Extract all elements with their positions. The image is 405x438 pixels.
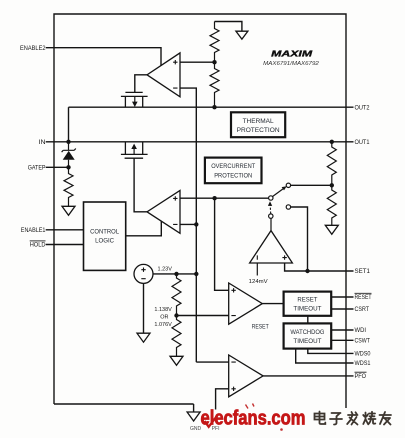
wire control logic to U2 enable bbox=[126, 221, 162, 236]
svg-text:CSWT: CSWT bbox=[355, 337, 371, 344]
resistor R2 bbox=[210, 62, 219, 107]
wire U4 output to switch actuator bbox=[270, 218, 272, 230]
node GATEP junction bbox=[66, 165, 70, 169]
wire WDS0 pin bbox=[308, 349, 354, 354]
svg-text:WDS1: WDS1 bbox=[355, 360, 371, 367]
svg-text:WDS0: WDS0 bbox=[355, 351, 371, 358]
node divider top bbox=[174, 272, 178, 276]
op-amp U2 (OUT1 error amp) bbox=[147, 190, 180, 233]
wire U4 + to SET1 node bbox=[285, 263, 308, 271]
overline RESET bbox=[355, 292, 372, 294]
overline HOLD bbox=[30, 240, 46, 242]
reset timeout box bbox=[284, 292, 332, 316]
svg-text:RESET: RESET bbox=[252, 324, 269, 331]
wire R1 top to ground bbox=[215, 22, 242, 32]
wire U4 - to 124mV reference bbox=[256, 263, 258, 276]
wire IN / OUT1 rail bbox=[46, 141, 354, 143]
resistor R3 bbox=[64, 167, 73, 206]
svg-text:PROTECTION: PROTECTION bbox=[214, 172, 252, 179]
svg-text:124mV: 124mV bbox=[249, 279, 268, 285]
svg-text:HOLD: HOLD bbox=[30, 242, 46, 249]
wire U2 - to ref rail bbox=[180, 223, 196, 225]
wire CSWT pin bbox=[331, 339, 353, 341]
svg-text:THERMAL: THERMAL bbox=[243, 118, 275, 125]
overcurrent comparator U4 bbox=[250, 231, 293, 263]
svg-text:MAX6791/MAX6792: MAX6791/MAX6792 bbox=[263, 61, 319, 67]
svg-text:TIMEOUT: TIMEOUT bbox=[293, 338, 321, 345]
ground (R7) bbox=[170, 356, 183, 365]
wire U1 - input / 1.23V reference rail bbox=[180, 88, 196, 362]
ground (1.23V source) bbox=[137, 333, 150, 342]
svg-text:ENABLE2: ENABLE2 bbox=[20, 45, 46, 52]
svg-text:LOGIC: LOGIC bbox=[95, 238, 115, 245]
op-amp U1 (OUT2 error amp) bbox=[147, 53, 180, 97]
watchdog timeout box bbox=[284, 323, 332, 348]
wire feedback to reset comparator + bbox=[215, 198, 229, 290]
svg-text:ENABLE1: ENABLE1 bbox=[21, 227, 46, 234]
wire WDS1 pin bbox=[296, 349, 354, 363]
node threshold tap bbox=[174, 313, 178, 317]
svg-text:MAXIM: MAXIM bbox=[271, 48, 313, 58]
wire IN up to Q1 source bbox=[68, 107, 70, 142]
ground (GND pin) bbox=[187, 412, 200, 421]
resistor R4 bbox=[327, 142, 336, 186]
wire RESET pin bbox=[331, 296, 353, 298]
wire PFI pin to U5 + bbox=[216, 389, 229, 410]
wire U2 output to Q2 gate bbox=[134, 158, 147, 212]
wire U5 output to PFO pin bbox=[263, 375, 353, 377]
resistor R6 bbox=[172, 274, 181, 316]
svg-text:SET1: SET1 bbox=[355, 268, 371, 275]
overline PFO bbox=[355, 371, 367, 373]
svg-text:WATCHDOG: WATCHDOG bbox=[290, 329, 324, 336]
thermal protection box bbox=[231, 112, 285, 137]
svg-text:GATEP: GATEP bbox=[28, 165, 46, 172]
svg-text:1.138V: 1.138V bbox=[154, 307, 172, 313]
resistor R1 bbox=[210, 22, 219, 63]
node IN junction bbox=[66, 140, 70, 144]
svg-text:CSRT: CSRT bbox=[355, 306, 370, 313]
wire WDI pin bbox=[331, 329, 353, 331]
svg-text:IN: IN bbox=[39, 139, 46, 146]
comparator U5 (power-fail, PFO) bbox=[229, 355, 263, 397]
svg-text:1.076V: 1.076V bbox=[154, 322, 172, 328]
node R2 to OUT2 rail bbox=[212, 105, 216, 109]
svg-text:OUT1: OUT1 bbox=[355, 139, 370, 146]
comparator U3 (reset) bbox=[229, 283, 269, 331]
wire U2 + input to switch pole bbox=[180, 197, 269, 199]
svg-text:PFO: PFO bbox=[355, 373, 367, 380]
analog switch S1 bbox=[268, 183, 291, 218]
wire switch throw C to SET1 node bbox=[291, 207, 308, 271]
wire U3 output to reset timeout bbox=[262, 303, 283, 305]
ground (GATEP pulldown) bbox=[62, 206, 75, 215]
zener diode D1 bbox=[62, 142, 76, 168]
ground (top divider) bbox=[236, 31, 248, 39]
node feedback junction bbox=[212, 196, 216, 200]
svg-text:PROTECTION: PROTECTION bbox=[237, 127, 280, 134]
svg-text:OVERCURRENT: OVERCURRENT bbox=[211, 163, 255, 170]
wire switch throw B to OUT1 divider tap bbox=[291, 184, 332, 186]
svg-text:CONTROL: CONTROL bbox=[90, 229, 120, 236]
value label 1.138V OR 1.076V bbox=[154, 307, 172, 328]
voltage reference 1.23V bbox=[134, 264, 172, 283]
watermark chinese characters bbox=[315, 412, 392, 425]
overcurrent protection box bbox=[205, 158, 262, 184]
wire ENABLE2 to op-amp U1 enable bbox=[46, 48, 161, 66]
control logic box bbox=[84, 202, 126, 270]
wire tap to reset comparator - bbox=[177, 315, 229, 317]
wire 1.23V to ground bbox=[143, 283, 145, 333]
node OUT1 divider tap bbox=[330, 183, 334, 187]
svg-text:TIMEOUT: TIMEOUT bbox=[293, 306, 321, 313]
wire ENABLE1 bbox=[46, 229, 84, 231]
wire GATEP bbox=[46, 166, 69, 168]
node SET1 bbox=[305, 269, 309, 273]
svg-text:OUT2: OUT2 bbox=[355, 104, 370, 111]
node OUT1 divider top bbox=[330, 140, 334, 144]
ground (OUT1 divider) bbox=[325, 225, 338, 234]
wire U1 + input to divider tap bbox=[180, 61, 215, 63]
svg-text:OR: OR bbox=[160, 315, 168, 321]
wire ref rail to U5 - bbox=[196, 361, 228, 363]
wire CSRT pin bbox=[331, 308, 353, 310]
node ref rail / U2 - bbox=[194, 222, 198, 226]
wire OUT2 rail bbox=[69, 106, 354, 108]
resistor R7 bbox=[172, 316, 181, 357]
node ref rail / 1.23V source bbox=[194, 272, 198, 276]
svg-text:1.23V: 1.23V bbox=[158, 266, 173, 272]
svg-text:RESET: RESET bbox=[355, 294, 372, 301]
transistor Q1 (pass PFET, OUT2) bbox=[121, 92, 148, 107]
wire U1 output to Q1 gate bbox=[135, 75, 147, 93]
wire SET1 pin bbox=[308, 270, 354, 272]
wire HOLD bbox=[46, 244, 84, 246]
node divider tap bbox=[212, 60, 216, 64]
wire reset timeout to watchdog timeout bbox=[307, 316, 309, 324]
wire 1.23V to ref rail bbox=[153, 273, 196, 275]
wire GND pin bbox=[193, 404, 195, 412]
svg-text:WDI: WDI bbox=[355, 327, 367, 334]
resistor R5 bbox=[327, 185, 336, 225]
svg-text:RESET: RESET bbox=[297, 297, 317, 304]
watermark elecfans.com bbox=[201, 404, 306, 431]
IC boundary frame bbox=[54, 14, 346, 408]
transistor Q2 (pass FET, OUT1) bbox=[121, 142, 148, 158]
svg-text:elecfans.com: elecfans.com bbox=[201, 408, 306, 430]
